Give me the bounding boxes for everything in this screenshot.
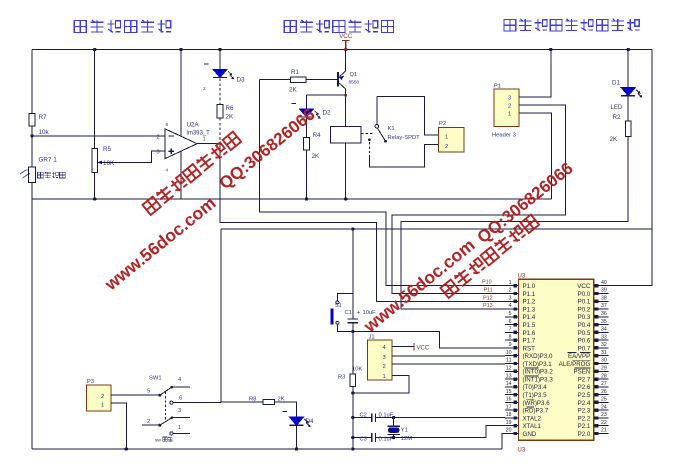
svg-text:2K: 2K bbox=[610, 136, 619, 143]
svg-text:C1: C1 bbox=[345, 310, 352, 316]
svg-text:8550: 8550 bbox=[349, 80, 360, 86]
svg-text:P2.6: P2.6 bbox=[578, 384, 591, 391]
wire J1 pin1 to RST/R3 node bbox=[353, 376, 409, 394]
LED D1 bbox=[611, 48, 643, 111]
svg-text:(TXD)P3.1: (TXD)P3.1 bbox=[523, 361, 553, 368]
svg-text:26: 26 bbox=[601, 389, 607, 395]
watermark www.56doc.com (right) bbox=[359, 235, 478, 337]
svg-text:P3: P3 bbox=[87, 379, 94, 385]
svg-text:10: 10 bbox=[506, 350, 512, 356]
potentiometer R5 bbox=[92, 48, 115, 201]
svg-text:8: 8 bbox=[166, 122, 169, 127]
label 光敏电阻 bbox=[38, 172, 66, 178]
capacitor C2 0.1uF bbox=[351, 413, 505, 422]
svg-text:P2.4: P2.4 bbox=[578, 400, 591, 407]
relay coil K1 bbox=[330, 126, 361, 200]
svg-text:35: 35 bbox=[601, 319, 607, 325]
svg-text:C2: C2 bbox=[360, 413, 367, 419]
svg-text:P1.2: P1.2 bbox=[523, 299, 536, 306]
svg-text:3: 3 bbox=[383, 355, 386, 361]
resistor R3 bbox=[338, 367, 362, 451]
header P3 bbox=[86, 379, 111, 411]
svg-text:33: 33 bbox=[601, 334, 607, 340]
svg-text:P1.1: P1.1 bbox=[523, 291, 536, 298]
wire P3 pin2 to SW1 bbox=[111, 394, 160, 396]
svg-text:Y1: Y1 bbox=[401, 428, 408, 434]
svg-text:XTAL2: XTAL2 bbox=[523, 415, 542, 422]
svg-text:24: 24 bbox=[601, 404, 607, 410]
svg-text:19: 19 bbox=[506, 420, 512, 426]
svg-text:21: 21 bbox=[601, 428, 607, 434]
svg-text:P13: P13 bbox=[483, 303, 493, 309]
svg-text:(T0)P3.4: (T0)P3.4 bbox=[523, 384, 548, 391]
svg-text:LED: LED bbox=[611, 105, 623, 111]
svg-text:29: 29 bbox=[601, 365, 607, 371]
LED D2 bbox=[292, 95, 346, 119]
svg-text:(RD)P3.7: (RD)P3.7 bbox=[523, 408, 549, 415]
svg-text:12M: 12M bbox=[401, 436, 412, 442]
svg-text:P1.5: P1.5 bbox=[523, 322, 536, 329]
svg-text:12: 12 bbox=[506, 365, 512, 371]
transistor Q1 8550 bbox=[338, 50, 360, 127]
wire J1 pin3 to MCU pin10 bbox=[392, 355, 505, 357]
capacitor C1 10uF bbox=[345, 229, 377, 374]
svg-text:R4: R4 bbox=[313, 132, 322, 139]
push button S1 bbox=[330, 294, 353, 332]
svg-text:SW1: SW1 bbox=[149, 376, 162, 382]
svg-text:2: 2 bbox=[101, 394, 104, 400]
svg-text:P0.7: P0.7 bbox=[578, 345, 591, 352]
wire op-amp inverting input net bbox=[32, 135, 165, 137]
svg-text:D4: D4 bbox=[306, 418, 315, 425]
svg-text:P0.3: P0.3 bbox=[578, 314, 591, 321]
svg-text:P1: P1 bbox=[494, 84, 501, 90]
crystal Y1 12M bbox=[387, 416, 412, 442]
svg-text:28: 28 bbox=[601, 373, 607, 379]
svg-text:P1.4: P1.4 bbox=[523, 314, 536, 321]
svg-text:1: 1 bbox=[101, 403, 104, 409]
svg-text:10k: 10k bbox=[39, 129, 50, 136]
svg-text:1: 1 bbox=[508, 111, 511, 117]
svg-text:2: 2 bbox=[383, 364, 386, 370]
title 红外热释电人体感应 bbox=[504, 19, 639, 31]
svg-text:2: 2 bbox=[508, 103, 511, 109]
svg-text:3: 3 bbox=[508, 95, 511, 101]
svg-text:VCC: VCC bbox=[339, 33, 353, 40]
svg-text:23: 23 bbox=[601, 412, 607, 418]
svg-text:C3: C3 bbox=[360, 437, 367, 443]
wire R5 wiper to op-amp + input bbox=[104, 151, 166, 162]
svg-text:10K: 10K bbox=[103, 160, 115, 167]
svg-text:K1: K1 bbox=[388, 126, 395, 132]
watermark QQ:306826066 (left) bbox=[216, 105, 319, 194]
svg-text:sw: sw bbox=[155, 439, 161, 444]
svg-text:2: 2 bbox=[509, 288, 512, 294]
svg-text:13: 13 bbox=[506, 373, 512, 379]
svg-text:20: 20 bbox=[506, 428, 512, 434]
title 光敏电路模块 bbox=[74, 20, 171, 33]
LED D3 bbox=[203, 48, 245, 105]
svg-text:Q1: Q1 bbox=[350, 72, 358, 78]
svg-text:P2: P2 bbox=[439, 121, 446, 127]
svg-text:P1.3: P1.3 bbox=[523, 306, 536, 313]
wire P1 pin1 to GND rail bbox=[519, 113, 551, 199]
svg-text:lm393_T: lm393_T bbox=[187, 131, 211, 137]
wire D1/R2 to P1.3 (net P13) bbox=[401, 137, 628, 309]
header J1 bbox=[368, 335, 392, 380]
wire VCC to MCU pin40 bbox=[594, 50, 652, 286]
svg-text:11: 11 bbox=[506, 358, 511, 364]
resistor R8 bbox=[221, 397, 297, 418]
svg-text:R7: R7 bbox=[39, 114, 48, 121]
svg-text:5: 5 bbox=[147, 389, 150, 395]
op-amp U2A lm393 bbox=[157, 48, 211, 199]
svg-text:38: 38 bbox=[601, 295, 607, 301]
svg-text:U3: U3 bbox=[518, 274, 526, 280]
svg-text:14: 14 bbox=[506, 381, 512, 387]
svg-text:15: 15 bbox=[506, 389, 512, 395]
svg-text:9: 9 bbox=[509, 342, 512, 348]
watermark www.56doc.com (left) bbox=[100, 193, 219, 295]
svg-text:S1: S1 bbox=[335, 303, 342, 309]
svg-text:8: 8 bbox=[509, 334, 512, 340]
svg-text:17: 17 bbox=[506, 404, 512, 410]
svg-text:18: 18 bbox=[506, 412, 512, 418]
wire J1 pin4 to VCC tick bbox=[392, 343, 430, 352]
svg-text:4: 4 bbox=[166, 168, 169, 173]
svg-text:7: 7 bbox=[509, 327, 512, 333]
wire VCC distribution bbox=[221, 228, 652, 230]
wire P1 pin3 to VCC rail bbox=[519, 50, 551, 97]
svg-text:Relay-SPDT: Relay-SPDT bbox=[388, 135, 421, 141]
svg-text:5: 5 bbox=[509, 311, 512, 317]
svg-text:Header 3: Header 3 bbox=[492, 133, 516, 139]
switch SW1 bbox=[142, 376, 221, 444]
svg-text:D1: D1 bbox=[612, 80, 621, 87]
svg-text:2K: 2K bbox=[289, 87, 298, 94]
svg-text:R3: R3 bbox=[338, 375, 345, 381]
svg-text:P0.1: P0.1 bbox=[578, 299, 591, 306]
svg-text:P1.0: P1.0 bbox=[523, 283, 536, 290]
svg-text:6: 6 bbox=[509, 319, 512, 325]
svg-text:(INT1)P3.3: (INT1)P3.3 bbox=[523, 376, 554, 383]
LED D4 bbox=[283, 412, 315, 451]
header P1 Header 3 bbox=[492, 84, 519, 139]
svg-text:R8: R8 bbox=[249, 397, 256, 403]
svg-text:P10: P10 bbox=[482, 280, 492, 286]
svg-text:P2.1: P2.1 bbox=[578, 423, 591, 430]
wm2 cjk bbox=[440, 214, 539, 298]
svg-text:P2.2: P2.2 bbox=[578, 415, 591, 422]
svg-text:P0.2: P0.2 bbox=[578, 306, 591, 313]
svg-text:GND: GND bbox=[523, 431, 537, 438]
wire J1 pin2 to MCU pin11 bbox=[392, 363, 505, 365]
svg-text:RST: RST bbox=[523, 345, 536, 352]
svg-text:(RXD)P3.0: (RXD)P3.0 bbox=[523, 353, 553, 360]
svg-text:P1.6: P1.6 bbox=[523, 330, 536, 337]
svg-text:XTAL1: XTAL1 bbox=[523, 423, 542, 430]
wire top VCC rail bbox=[32, 49, 652, 51]
wire bottom GND rail bbox=[32, 448, 502, 450]
wire GND mid rail bbox=[32, 198, 551, 200]
wire MCU GND pin20 to rail bbox=[502, 434, 505, 450]
svg-text:6: 6 bbox=[179, 396, 182, 402]
svg-text:(INT0)P3.2: (INT0)P3.2 bbox=[523, 369, 554, 376]
svg-text:EA/VPP: EA/VPP bbox=[568, 353, 590, 360]
svg-text:+: + bbox=[357, 310, 361, 317]
svg-text:ALE/PROG: ALE/PROG bbox=[559, 361, 591, 368]
svg-text:P0.0: P0.0 bbox=[578, 291, 591, 298]
svg-text:3: 3 bbox=[157, 150, 160, 156]
wire relay base drive to P1.0 (net P10) bbox=[260, 80, 505, 286]
svg-text:0.1uF: 0.1uF bbox=[379, 413, 394, 419]
svg-text:27: 27 bbox=[601, 381, 607, 387]
svg-text:39: 39 bbox=[601, 288, 607, 294]
svg-text:P1.7: P1.7 bbox=[523, 338, 536, 345]
wire P1 pin2 to P1.1 (net P11) bbox=[392, 105, 565, 294]
svg-text:1: 1 bbox=[203, 137, 206, 143]
svg-text:PSEN: PSEN bbox=[573, 369, 590, 376]
svg-text:1: 1 bbox=[445, 135, 448, 141]
label 灰色 bbox=[163, 437, 173, 441]
VCC power symbol bbox=[339, 33, 353, 51]
wire RST net to MCU pin9 bbox=[353, 332, 505, 348]
svg-text:VCC: VCC bbox=[417, 346, 430, 352]
svg-text:22: 22 bbox=[601, 420, 607, 426]
microcontroller U3 bbox=[505, 274, 609, 454]
wire op-amp output to P1.2 (net P12) bbox=[197, 144, 505, 302]
svg-text:10K: 10K bbox=[352, 367, 362, 373]
svg-text:30: 30 bbox=[601, 358, 607, 364]
resistor R1 bbox=[260, 69, 338, 94]
svg-text:R2: R2 bbox=[613, 114, 622, 121]
photoresistor GR7 1 bbox=[20, 157, 57, 183]
wire P3 pin1 to GND bbox=[111, 403, 127, 449]
svg-text:(T1)P3.5: (T1)P3.5 bbox=[523, 392, 548, 399]
svg-text:P0.5: P0.5 bbox=[578, 330, 591, 337]
svg-text:R6: R6 bbox=[226, 105, 235, 112]
wm1 cjk bbox=[142, 131, 241, 215]
svg-text:2K: 2K bbox=[278, 397, 285, 403]
svg-text:R1: R1 bbox=[291, 69, 300, 76]
resistor R4 bbox=[304, 117, 321, 201]
svg-text:40: 40 bbox=[601, 280, 607, 286]
svg-text:1: 1 bbox=[383, 374, 386, 380]
relay contacts K1 Relay-SPDT bbox=[361, 97, 438, 167]
svg-text:GR7 1: GR7 1 bbox=[39, 157, 58, 164]
svg-text:36: 36 bbox=[601, 311, 607, 317]
resistor R2 bbox=[610, 96, 632, 143]
svg-text:3: 3 bbox=[509, 295, 512, 301]
svg-text:16: 16 bbox=[506, 397, 512, 403]
svg-text:2: 2 bbox=[157, 135, 160, 141]
svg-text:(WR)P3.6: (WR)P3.6 bbox=[523, 400, 551, 407]
svg-text:VCC: VCC bbox=[577, 283, 591, 290]
watermark 毕业设计论文网 (right) bbox=[440, 214, 539, 298]
svg-text:2: 2 bbox=[203, 86, 206, 91]
title 继电器控制模块 bbox=[284, 20, 393, 33]
svg-text:2: 2 bbox=[147, 419, 150, 425]
svg-text:1: 1 bbox=[178, 425, 181, 431]
capacitor C3 0.1uF bbox=[351, 426, 505, 443]
wire VCC branch down to SW1/R8 bbox=[220, 229, 222, 402]
svg-text:P2.7: P2.7 bbox=[578, 376, 591, 383]
watermark QQ:306826066 (right) bbox=[474, 159, 577, 248]
svg-text:25: 25 bbox=[601, 397, 607, 403]
svg-text:2K: 2K bbox=[226, 114, 235, 121]
svg-text:P11: P11 bbox=[484, 288, 493, 294]
svg-text:P2.0: P2.0 bbox=[578, 431, 591, 438]
resistor R6 bbox=[217, 105, 234, 144]
svg-text:P2.5: P2.5 bbox=[578, 392, 591, 399]
svg-text:2K: 2K bbox=[312, 153, 321, 160]
svg-text:D3: D3 bbox=[237, 77, 246, 84]
svg-text:U2A: U2A bbox=[187, 122, 200, 129]
svg-text:37: 37 bbox=[601, 303, 607, 309]
header P2 bbox=[439, 121, 465, 152]
svg-text:P0.4: P0.4 bbox=[578, 322, 591, 329]
svg-text:P2.3: P2.3 bbox=[578, 408, 591, 415]
svg-text:3: 3 bbox=[178, 408, 181, 414]
wire left vertical (R7/GR branch) bbox=[31, 50, 33, 450]
svg-text:31: 31 bbox=[601, 350, 607, 356]
svg-text:4: 4 bbox=[509, 303, 512, 309]
svg-text:34: 34 bbox=[601, 327, 607, 333]
svg-text:0.1uF: 0.1uF bbox=[379, 437, 394, 443]
svg-text:1: 1 bbox=[509, 280, 512, 286]
resistor R7 bbox=[29, 114, 49, 137]
svg-text:D2: D2 bbox=[323, 110, 332, 117]
svg-text:32: 32 bbox=[601, 342, 607, 348]
svg-text:U3: U3 bbox=[518, 448, 526, 454]
svg-text:P12: P12 bbox=[483, 295, 493, 301]
svg-text:P0.6: P0.6 bbox=[578, 338, 591, 345]
svg-text:R5: R5 bbox=[103, 146, 112, 153]
svg-text:2: 2 bbox=[445, 144, 448, 150]
watermark 毕业设计论文网 (left) bbox=[142, 131, 241, 215]
